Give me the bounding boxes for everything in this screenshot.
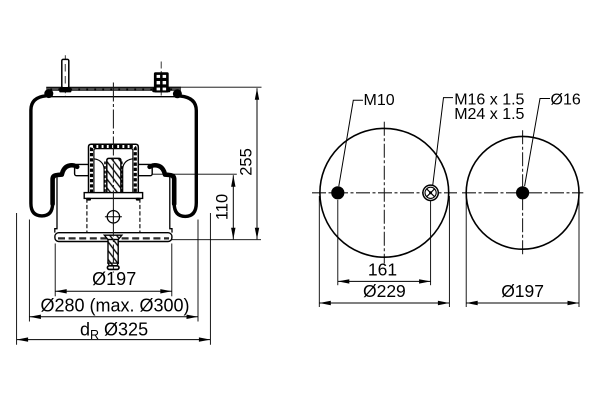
svg-text:Ø229: Ø229	[363, 281, 406, 301]
dimension dR diameter 325	[17, 320, 211, 343]
centre bolt upper (hatched)	[107, 158, 121, 192]
bolt flange	[104, 235, 122, 239]
centrelines right circle	[462, 130, 583, 255]
dimension 110	[213, 175, 235, 239]
bellows top edge	[50, 96, 178, 98]
main centreline	[112, 83, 114, 273]
piston wing right	[137, 164, 152, 175]
piston skirt right	[170, 177, 172, 233]
piston hidden edge right	[139, 199, 141, 233]
bell foot bar	[84, 193, 142, 199]
centrelines middle circle	[312, 122, 457, 264]
dimension dia 229	[319, 281, 449, 305]
bottom plate	[55, 233, 172, 242]
dimension 255	[237, 88, 259, 239]
leader dia16	[525, 99, 550, 187]
svg-text:Ø197: Ø197	[92, 269, 136, 289]
extension lines dia 229	[318, 196, 320, 307]
M10 stud position	[331, 186, 344, 199]
bellows outer wall right	[174, 96, 196, 216]
bolt taper	[108, 263, 118, 266]
centre hole dia 16	[516, 186, 529, 199]
dimension diameter 280 max 300	[29, 296, 198, 319]
svg-text:Ø197: Ø197	[501, 281, 544, 301]
piston bell outer	[89, 144, 139, 192]
extension line bottom (255/110)	[170, 239, 261, 241]
svg-text:Ø280 (max. Ø300): Ø280 (max. Ø300)	[40, 296, 189, 316]
centre mark	[105, 209, 122, 225]
dimension 161	[338, 259, 431, 283]
extension lines dia 197 (plan)	[465, 196, 467, 307]
svg-text:110: 110	[213, 194, 231, 220]
extension lines 161	[337, 200, 339, 285]
extension lines diameter 197 (side view)	[54, 244, 56, 297]
extension lines dR diameter 325	[16, 213, 18, 345]
svg-text:M10: M10	[364, 92, 395, 109]
bell pocket step left	[94, 159, 104, 193]
air fitting (threaded boss)	[152, 62, 170, 97]
top plate	[46, 87, 181, 91]
bellows clamp hook left	[53, 165, 78, 204]
bellows clamp hook right	[150, 165, 175, 204]
piston skirt left	[55, 177, 57, 233]
dimension dia 197 (plan)	[466, 281, 579, 305]
plate circle (dia 229)	[320, 128, 449, 257]
pocket thread right	[121, 162, 123, 193]
bell pocket step right	[123, 159, 133, 193]
svg-text:M24 x 1.5: M24 x 1.5	[454, 106, 524, 123]
piston circle (dia 197)	[466, 136, 579, 249]
svg-text:161: 161	[368, 259, 397, 279]
stud (M10 bolt)	[59, 55, 71, 96]
piston bell wall hatch band	[92, 147, 136, 193]
piston bell inner	[94, 149, 133, 193]
extension line 110 top	[152, 173, 237, 175]
piston hidden edge left	[86, 199, 88, 233]
bellows outer wall left	[31, 96, 53, 216]
extension line 255 top	[166, 86, 262, 88]
dimension diameter 197 (side view)	[55, 269, 172, 293]
bolt end cap	[107, 266, 119, 270]
leader M16/M24	[433, 98, 453, 186]
svg-text:Ø16: Ø16	[551, 91, 581, 108]
foot pad right	[136, 198, 141, 201]
M16/M24 air fitting symbol	[423, 185, 438, 200]
bead rings	[44, 89, 53, 98]
extension lines diameter 280	[28, 220, 30, 322]
piston wing left	[75, 164, 90, 175]
leader M10	[339, 100, 363, 186]
pocket thread left	[104, 162, 106, 193]
foot pad left	[86, 198, 91, 201]
svg-text:255: 255	[237, 148, 255, 176]
bolt shank (hatched)	[108, 240, 118, 264]
